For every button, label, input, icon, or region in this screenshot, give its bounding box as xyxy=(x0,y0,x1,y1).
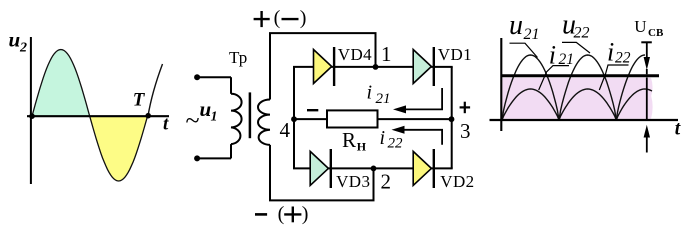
label i22 (circuit) xyxy=(380,127,404,152)
i22 leader xyxy=(599,65,628,90)
svg-text:Тр: Тр xyxy=(229,48,247,67)
transformer core bar xyxy=(249,92,252,138)
svg-text:22: 22 xyxy=(574,25,590,42)
u23 partial hump xyxy=(616,55,645,120)
wire: secondary top + outer loop top to node 1 xyxy=(270,33,376,99)
middle circuit wires xyxy=(197,33,453,200)
period T dot xyxy=(145,113,151,119)
node 4 dot xyxy=(291,116,297,122)
wire: bridge left vertical xyxy=(293,67,295,168)
label Ucb xyxy=(634,17,664,39)
svg-text:1: 1 xyxy=(211,110,218,125)
t axis (horizontal) xyxy=(27,115,169,117)
svg-text:22: 22 xyxy=(388,136,404,152)
svg-text:21: 21 xyxy=(376,91,391,107)
wire: bridge bottom xyxy=(293,167,453,169)
svg-text:u: u xyxy=(509,10,523,41)
wire: primary bottom stub xyxy=(230,144,232,158)
label plus near node 3 xyxy=(460,102,471,114)
dc area pink fill xyxy=(502,78,653,119)
i21 leader xyxy=(539,66,569,90)
right plot vertical axis xyxy=(500,38,502,131)
resistor RH body xyxy=(327,110,378,127)
node 2 dot xyxy=(371,166,377,172)
label u22 xyxy=(562,10,590,42)
Ucb dimension line with arrows xyxy=(641,42,652,152)
u22 leader xyxy=(562,42,590,53)
svg-text:3: 3 xyxy=(460,119,471,143)
wire: bridge top xyxy=(293,66,453,68)
origin dot xyxy=(29,113,35,119)
primary winding xyxy=(231,94,242,144)
svg-text:VD4: VD4 xyxy=(338,45,372,64)
label ~u1 xyxy=(186,97,218,135)
svg-text:(: ( xyxy=(274,7,281,29)
u21 leader xyxy=(510,43,538,57)
label RH xyxy=(342,128,367,154)
svg-text:Н: Н xyxy=(357,139,367,153)
diode VD3 xyxy=(310,149,331,188)
svg-text:t: t xyxy=(675,118,681,139)
input terminal dot top xyxy=(194,74,200,80)
svg-text:22: 22 xyxy=(615,49,631,66)
svg-text:СВ: СВ xyxy=(648,27,664,39)
wire: primary top stub xyxy=(230,77,232,94)
label u2 xyxy=(9,28,28,56)
label i22 (plot) xyxy=(607,38,631,67)
current arrow i22 xyxy=(392,126,443,145)
svg-text:u: u xyxy=(9,28,21,52)
wire: bottom terminal to primary xyxy=(197,157,231,159)
svg-text:): ) xyxy=(300,7,307,29)
wire: secondary bottom + outer loop bottom to node 2 xyxy=(270,145,374,201)
svg-text:21: 21 xyxy=(524,26,540,43)
svg-text:VD2: VD2 xyxy=(440,172,474,191)
label minus near node 4 xyxy=(307,109,318,111)
i23 partial hump xyxy=(616,89,652,120)
wire: top terminal to primary xyxy=(197,76,231,78)
label i21 (plot) xyxy=(549,41,574,70)
svg-text:2: 2 xyxy=(381,170,392,194)
diode VD4 xyxy=(314,47,335,86)
svg-text:1: 1 xyxy=(381,42,392,66)
svg-text:~: ~ xyxy=(186,106,200,135)
label i21 (circuit) xyxy=(367,82,391,107)
svg-text:(: ( xyxy=(278,203,285,225)
svg-text:i: i xyxy=(367,82,373,104)
node 1 dot xyxy=(373,64,379,70)
label bottom polarity - (+) xyxy=(255,203,308,225)
Ucb dc level line xyxy=(501,74,660,77)
u2 axis (vertical) xyxy=(30,37,32,184)
diode VD2 xyxy=(413,149,434,188)
svg-text:t: t xyxy=(163,113,169,134)
svg-text:i: i xyxy=(607,38,614,67)
current arrow i21 xyxy=(393,88,442,113)
svg-text:4: 4 xyxy=(280,118,291,142)
svg-text:T: T xyxy=(133,90,146,111)
svg-text:i: i xyxy=(380,127,386,149)
svg-text:U: U xyxy=(634,17,646,36)
node 3 dot xyxy=(449,116,455,122)
input terminal dot bottom xyxy=(194,155,200,161)
wire: load middle wire xyxy=(294,118,452,120)
secondary winding xyxy=(258,100,270,145)
svg-text:u: u xyxy=(200,97,212,121)
label u21 xyxy=(509,10,540,43)
u21 hump xyxy=(502,55,559,120)
wire: bridge right vertical xyxy=(451,67,453,168)
next-period curve xyxy=(148,64,163,116)
label top polarity + (-) xyxy=(254,7,307,29)
i22 hump xyxy=(559,89,616,120)
svg-text:VD3: VD3 xyxy=(336,172,370,191)
positive half-wave green fill xyxy=(32,50,90,117)
i21 hump xyxy=(502,89,559,120)
svg-text:): ) xyxy=(302,203,309,225)
negative half-wave yellow fill xyxy=(90,116,148,181)
svg-text:2: 2 xyxy=(19,41,27,56)
diode VD1 xyxy=(413,47,434,86)
u22 hump xyxy=(559,55,616,120)
svg-text:R: R xyxy=(342,128,356,152)
svg-text:VD1: VD1 xyxy=(438,45,472,64)
right plot t axis xyxy=(490,119,679,121)
